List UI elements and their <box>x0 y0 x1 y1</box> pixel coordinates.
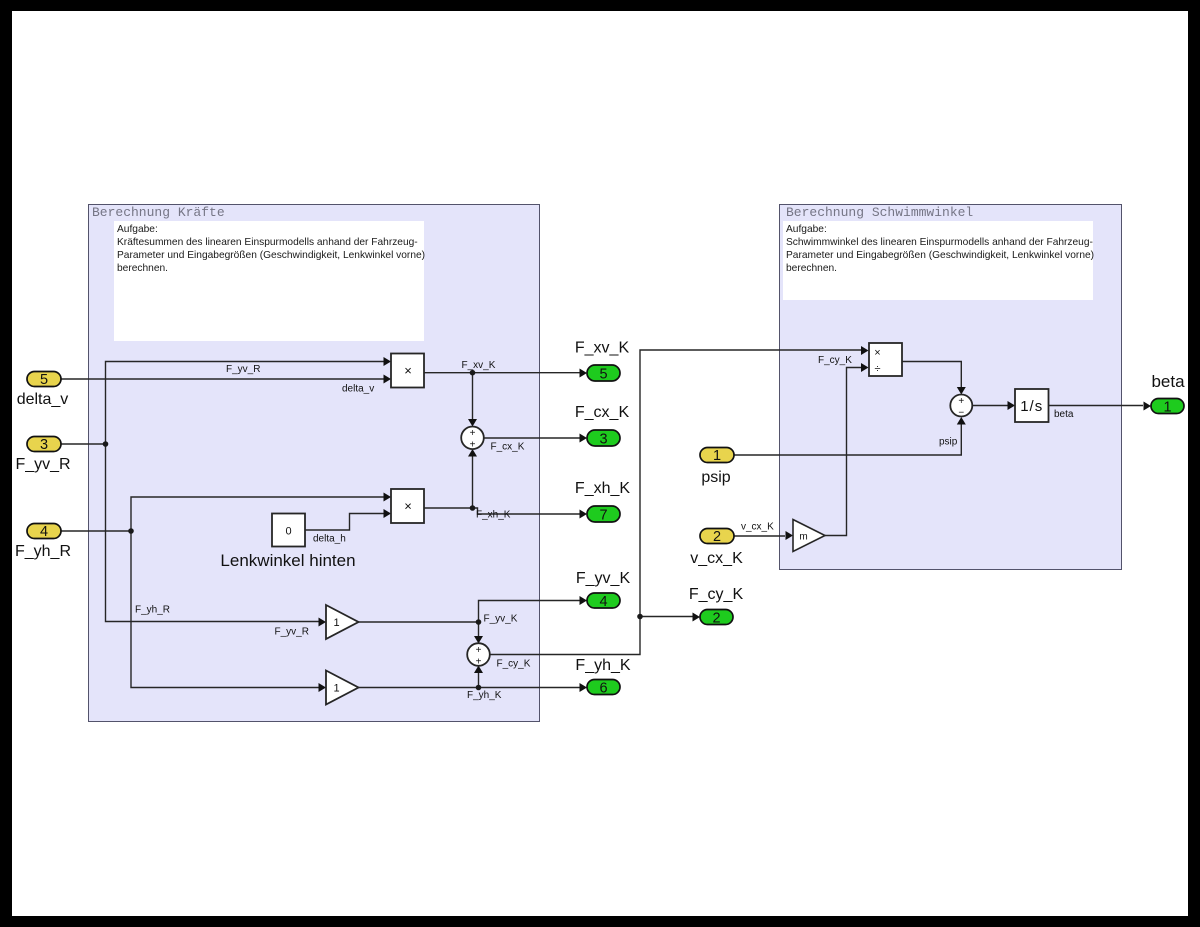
outport 4 F_yv_K <box>576 570 631 610</box>
junction node F_xh_K <box>470 505 476 511</box>
annotation note (Aufgabe Schwimmwinkel) <box>783 221 1093 300</box>
inport 1 psip <box>700 448 734 487</box>
outport 2 F_cy_K <box>689 586 744 627</box>
arrowhead into Sum2 bottom <box>474 666 483 674</box>
junction node F_yv_K <box>476 619 482 625</box>
svg-text:Lenkwinkel hinten: Lenkwinkel hinten <box>220 551 355 570</box>
svg-text:3: 3 <box>599 432 607 448</box>
junction node F_xv_K <box>470 370 476 376</box>
subsystem area "Berechnung Kräfte" <box>88 204 540 722</box>
wire Gain1 output to junction <box>359 621 479 623</box>
wire F_yh_K branch up to Sum2 lower input <box>478 673 480 688</box>
svg-text:v_cx_K: v_cx_K <box>690 550 743 567</box>
subsystem area "Berechnung Schwimmwinkel" <box>779 204 1122 570</box>
inport 3 F_yv_R <box>15 437 70 474</box>
junction node on F_yv_R <box>103 441 109 447</box>
block Product1 <box>391 354 424 388</box>
svg-text:2: 2 <box>712 611 720 627</box>
wire Product1 output F_xv_K to outport 5 <box>424 372 580 374</box>
svg-text:×: × <box>404 363 412 378</box>
svg-text:F_yh_K: F_yh_K <box>575 657 630 674</box>
arrowhead into outport 7 <box>580 510 588 519</box>
wire F_yh_R up branch to Product2 upper input <box>131 497 384 531</box>
arrowhead into outport 2 <box>693 613 701 622</box>
junction node F_yh_K <box>476 685 482 691</box>
svg-text:F_yv_R: F_yv_R <box>15 456 70 473</box>
svg-text:1: 1 <box>333 683 339 695</box>
svg-text:F_xh_K: F_xh_K <box>476 510 511 521</box>
svg-text:1/s: 1/s <box>1020 398 1043 415</box>
wire F_cy_K up to Divide upper input <box>640 350 861 617</box>
arrowhead into Product2 lower input <box>384 509 392 518</box>
svg-text:F_xv_K: F_xv_K <box>462 360 496 371</box>
arrowhead into Product1 upper input <box>384 357 392 366</box>
svg-text:F_yh_R: F_yh_R <box>15 543 71 560</box>
block Gain m <box>793 520 825 552</box>
block Integrator 1/s <box>1015 389 1049 422</box>
svg-text:m: m <box>799 532 807 543</box>
svg-text:F_cx_K: F_cx_K <box>575 404 630 421</box>
wire Product2 output to junction <box>424 507 473 509</box>
svg-text:7: 7 <box>599 508 607 524</box>
wire Integrator output beta to outport 1 <box>1049 405 1144 407</box>
arrowhead into Gain m <box>786 531 794 540</box>
svg-text:6: 6 <box>599 681 607 697</box>
svg-text:F_yv_R: F_yv_R <box>275 627 309 638</box>
arrowhead into Divide upper input <box>861 346 869 355</box>
outport 1 beta <box>1151 372 1185 416</box>
svg-text:F_cy_K: F_cy_K <box>497 659 531 670</box>
svg-text:+: + <box>470 440 476 451</box>
outport 3 F_cx_K <box>575 404 630 448</box>
inport 4 F_yh_R <box>15 524 71 561</box>
wire F_yh_R from inport 4 to junction <box>61 530 131 532</box>
arrowhead into Sum1 top <box>468 419 477 427</box>
wire Constant delta_h to Product2 lower input <box>305 514 384 531</box>
arrowhead into Sum3 top <box>957 387 966 395</box>
wire psip to Sum3 lower input <box>734 425 961 456</box>
svg-text:−: − <box>958 408 964 419</box>
arrowhead into Sum2 top <box>474 636 483 644</box>
wire v_cx_K to Gain m <box>734 535 785 537</box>
wire F_xh_K to outport 7 <box>473 508 581 514</box>
wire F_xh_K branch up to Sum1 lower input <box>472 457 474 509</box>
wire Gain m output to Divide lower input <box>825 368 861 536</box>
arrowhead into Product1 lower input <box>384 375 392 384</box>
svg-text:5: 5 <box>40 372 48 388</box>
wire F_yv_R up branch to Product1 upper input <box>106 362 385 445</box>
wire Divide output to Sum3 upper input <box>902 362 961 388</box>
svg-text:×: × <box>404 499 412 514</box>
wire Sum2 output F_cy_K to junction <box>490 617 640 655</box>
svg-text:F_yv_R: F_yv_R <box>226 364 260 375</box>
svg-text:1: 1 <box>1163 400 1171 416</box>
svg-text:2: 2 <box>713 529 721 545</box>
block Sum2 F_cy <box>467 643 490 667</box>
svg-text:+: + <box>958 396 964 407</box>
block Product2 <box>391 489 424 523</box>
block Gain1 value 1 <box>326 605 359 639</box>
arrowhead into Divide lower input <box>861 363 869 372</box>
svg-text:+: + <box>470 428 476 439</box>
inport 5 delta_v <box>17 372 69 409</box>
wire F_yv_R down branch to Gain1 <box>106 444 320 622</box>
svg-text:F_cy_K: F_cy_K <box>689 586 744 603</box>
subsystem title "Berechnung Schwimmwinkel" <box>786 205 973 220</box>
svg-text:delta_h: delta_h <box>313 534 346 545</box>
wire Sum1 output F_cx_K to outport 3 <box>484 437 580 439</box>
svg-text:F_xv_K: F_xv_K <box>575 340 630 357</box>
arrowhead into Product2 upper input <box>384 493 392 502</box>
wire Gain2 output to outport 6 <box>359 687 581 689</box>
arrowhead into outport 3 <box>580 434 588 443</box>
svg-text:beta: beta <box>1151 372 1185 391</box>
svg-text:+: + <box>476 645 482 656</box>
arrowhead into outport 4 <box>580 596 588 605</box>
block Gain2 value 1 <box>326 671 359 705</box>
wire F_yh_R down branch to Gain2 <box>131 531 319 688</box>
svg-text:1: 1 <box>333 617 339 629</box>
svg-text:beta: beta <box>1054 409 1074 420</box>
junction node on F_yh_R <box>128 528 134 534</box>
svg-text:F_yv_K: F_yv_K <box>484 614 518 625</box>
inport 2 v_cx_K <box>690 529 743 568</box>
svg-text:F_yh_R: F_yh_R <box>135 605 170 616</box>
svg-text:delta_v: delta_v <box>17 391 69 408</box>
svg-text:F_yv_K: F_yv_K <box>576 570 631 587</box>
svg-text:F_cx_K: F_cx_K <box>491 442 525 453</box>
svg-text:+: + <box>476 657 482 668</box>
svg-text:4: 4 <box>40 524 48 540</box>
svg-text:psip: psip <box>939 437 958 448</box>
outport 5 F_xv_K <box>575 340 630 383</box>
svg-text:×: × <box>874 347 880 359</box>
svg-text:F_xh_K: F_xh_K <box>575 480 630 497</box>
arrowhead into Sum1 bottom <box>468 449 477 457</box>
wire delta_v to Product1 lower input <box>61 378 384 380</box>
wire F_yv_K branch to outport 4 <box>479 601 581 623</box>
wire F_yv_R from inport 3 to junction <box>61 443 106 445</box>
wire F_cy_K to outport 2 <box>640 616 693 618</box>
arrowhead into Gain2 <box>319 683 327 692</box>
wire F_yv_K branch down to Sum2 <box>478 622 480 636</box>
block Sum3 psip minus <box>950 395 972 419</box>
arrowhead into outport 1 beta <box>1144 402 1152 411</box>
annotation note (Aufgabe Kräfte) <box>114 221 424 341</box>
svg-text:F_cy_K: F_cy_K <box>818 355 852 366</box>
arrowhead into outport 6 <box>580 683 588 692</box>
block Sum1 F_cx <box>461 427 484 451</box>
svg-text:5: 5 <box>599 367 607 383</box>
wire F_xv_K branch down to Sum1 <box>472 373 474 419</box>
subsystem title "Berechnung Kräfte" <box>92 205 225 220</box>
svg-text:delta_v: delta_v <box>342 384 374 395</box>
arrowhead into outport 5 <box>580 369 588 378</box>
svg-text:0: 0 <box>285 526 291 538</box>
arrowhead into Integrator <box>1008 401 1016 410</box>
svg-text:÷: ÷ <box>874 363 880 375</box>
outport 6 F_yh_K <box>575 657 630 697</box>
wire Sum3 output to Integrator <box>972 405 1008 407</box>
svg-text:1: 1 <box>713 448 721 464</box>
outport 7 F_xh_K <box>575 480 630 524</box>
block Constant delta_h value 0 <box>272 514 305 547</box>
arrowhead into Sum3 bottom <box>957 417 966 425</box>
junction node F_cy_K <box>637 614 643 620</box>
svg-text:3: 3 <box>40 437 48 453</box>
svg-text:psip: psip <box>701 469 730 486</box>
block Divide <box>869 343 902 376</box>
svg-text:4: 4 <box>599 594 607 610</box>
svg-text:v_cx_K: v_cx_K <box>741 522 774 533</box>
arrowhead into Gain1 <box>319 618 327 627</box>
svg-text:F_yh_K: F_yh_K <box>467 690 502 701</box>
